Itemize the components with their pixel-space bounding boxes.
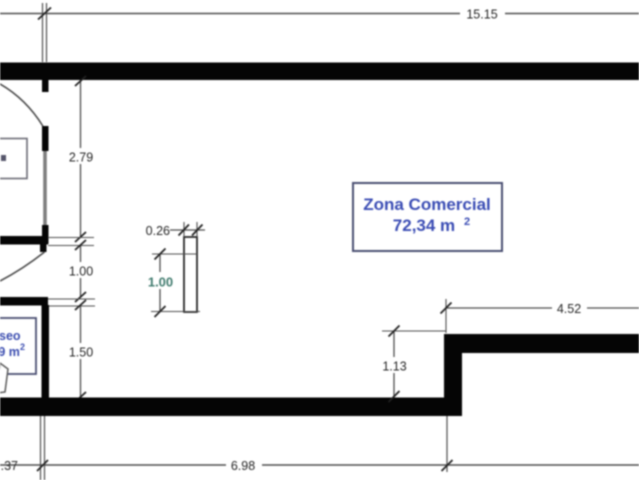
extension lines wall A (48, 237, 94, 239)
label box Aseo (cut) (0, 318, 36, 374)
door arc D1 top-left room (0, 84, 43, 126)
room label box (cut) top-left (0, 139, 27, 179)
svg-text:Zona Comercial: Zona Comercial (363, 195, 491, 214)
svg-text:72,34 m: 72,34 m (393, 216, 455, 235)
dimension 15.15 overall top (0, 3, 639, 62)
dimension 1.13 step height (379, 326, 446, 403)
dimension 1.50 (62, 300, 99, 402)
wall interior horizontal A (0, 236, 48, 245)
dimension 2.79 (62, 76, 100, 242)
wall jamb stub below A (40, 244, 47, 252)
fixture (cut) below aseo label (0, 363, 8, 393)
wall bottom exterior (0, 398, 462, 417)
dimension 0.26 pillar width (146, 222, 205, 238)
partition thin segment (43, 151, 47, 225)
label box Zona Comercial (353, 183, 502, 251)
svg-text:Aseo: Aseo (0, 329, 21, 343)
svg-text:6.98: 6.98 (231, 459, 255, 473)
wall interior horizontal B (0, 297, 48, 306)
wall top exterior (0, 63, 639, 81)
dimension bottom 0.37 / 6.98 (0, 416, 639, 480)
svg-text:1.00: 1.00 (69, 265, 93, 279)
svg-text:1.50: 1.50 (69, 346, 93, 360)
svg-text:1.13: 1.13 (382, 360, 406, 374)
door arc D2 middle-left room (0, 252, 45, 281)
wall interior vertical lower segment (42, 225, 49, 244)
pillar P1 (184, 237, 197, 312)
svg-text:2: 2 (20, 342, 25, 352)
svg-text:2: 2 (464, 216, 470, 228)
dimension 1.00 pillar height (teal) (145, 249, 200, 318)
wall left-room jamb stub (42, 80, 49, 92)
svg-text:2,49 m: 2,49 m (0, 345, 20, 359)
svg-text:0.26: 0.26 (146, 224, 170, 238)
svg-text:1.00: 1.00 (148, 275, 173, 290)
wall aseo right vertical (42, 305, 50, 398)
wall interior vertical upper segment (42, 126, 49, 151)
dimension 1.00 left (63, 240, 98, 302)
dimension 4.52 right wall (441, 299, 639, 333)
wall step vertical (444, 334, 462, 416)
wall right lower exterior (444, 334, 639, 353)
svg-text:4.52: 4.52 (557, 302, 581, 316)
svg-text:2.79: 2.79 (69, 151, 93, 165)
svg-text:15.15: 15.15 (466, 8, 497, 22)
extension lines wall B (48, 298, 95, 300)
svg-text:0.37: 0.37 (0, 459, 18, 473)
